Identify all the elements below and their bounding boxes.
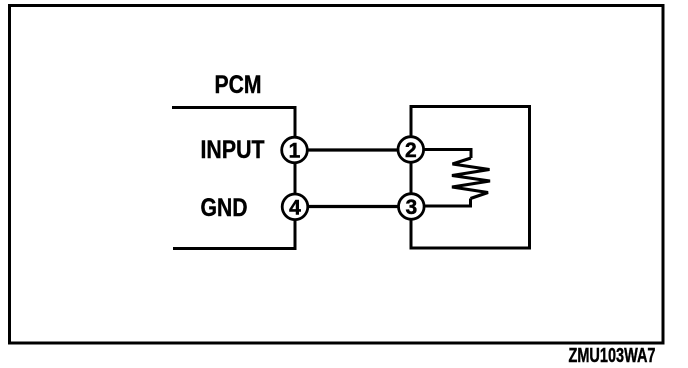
sensor box U1 bbox=[411, 107, 530, 249]
svg-text:GND: GND bbox=[201, 194, 248, 222]
pin 4 bbox=[282, 194, 308, 220]
svg-text:4: 4 bbox=[289, 196, 301, 219]
svg-text:ZMU103WA7: ZMU103WA7 bbox=[569, 345, 656, 367]
resistor R1 bbox=[452, 158, 490, 199]
PCM connector box (open left) bbox=[172, 108, 295, 249]
wire pin1 to pin2 bbox=[295, 148, 411, 151]
pin 2 bbox=[398, 137, 424, 163]
svg-text:PCM: PCM bbox=[215, 71, 262, 99]
svg-text:1: 1 bbox=[289, 140, 301, 163]
wire pin2 to resistor top bbox=[411, 150, 471, 159]
pin 3 bbox=[399, 194, 425, 220]
wire resistor bottom to pin3 bbox=[411, 199, 471, 207]
svg-text:3: 3 bbox=[405, 196, 417, 219]
pin 1 bbox=[282, 137, 308, 163]
svg-text:INPUT: INPUT bbox=[201, 136, 265, 164]
svg-text:2: 2 bbox=[405, 139, 417, 162]
wire pin4 to pin3 bbox=[295, 205, 411, 208]
